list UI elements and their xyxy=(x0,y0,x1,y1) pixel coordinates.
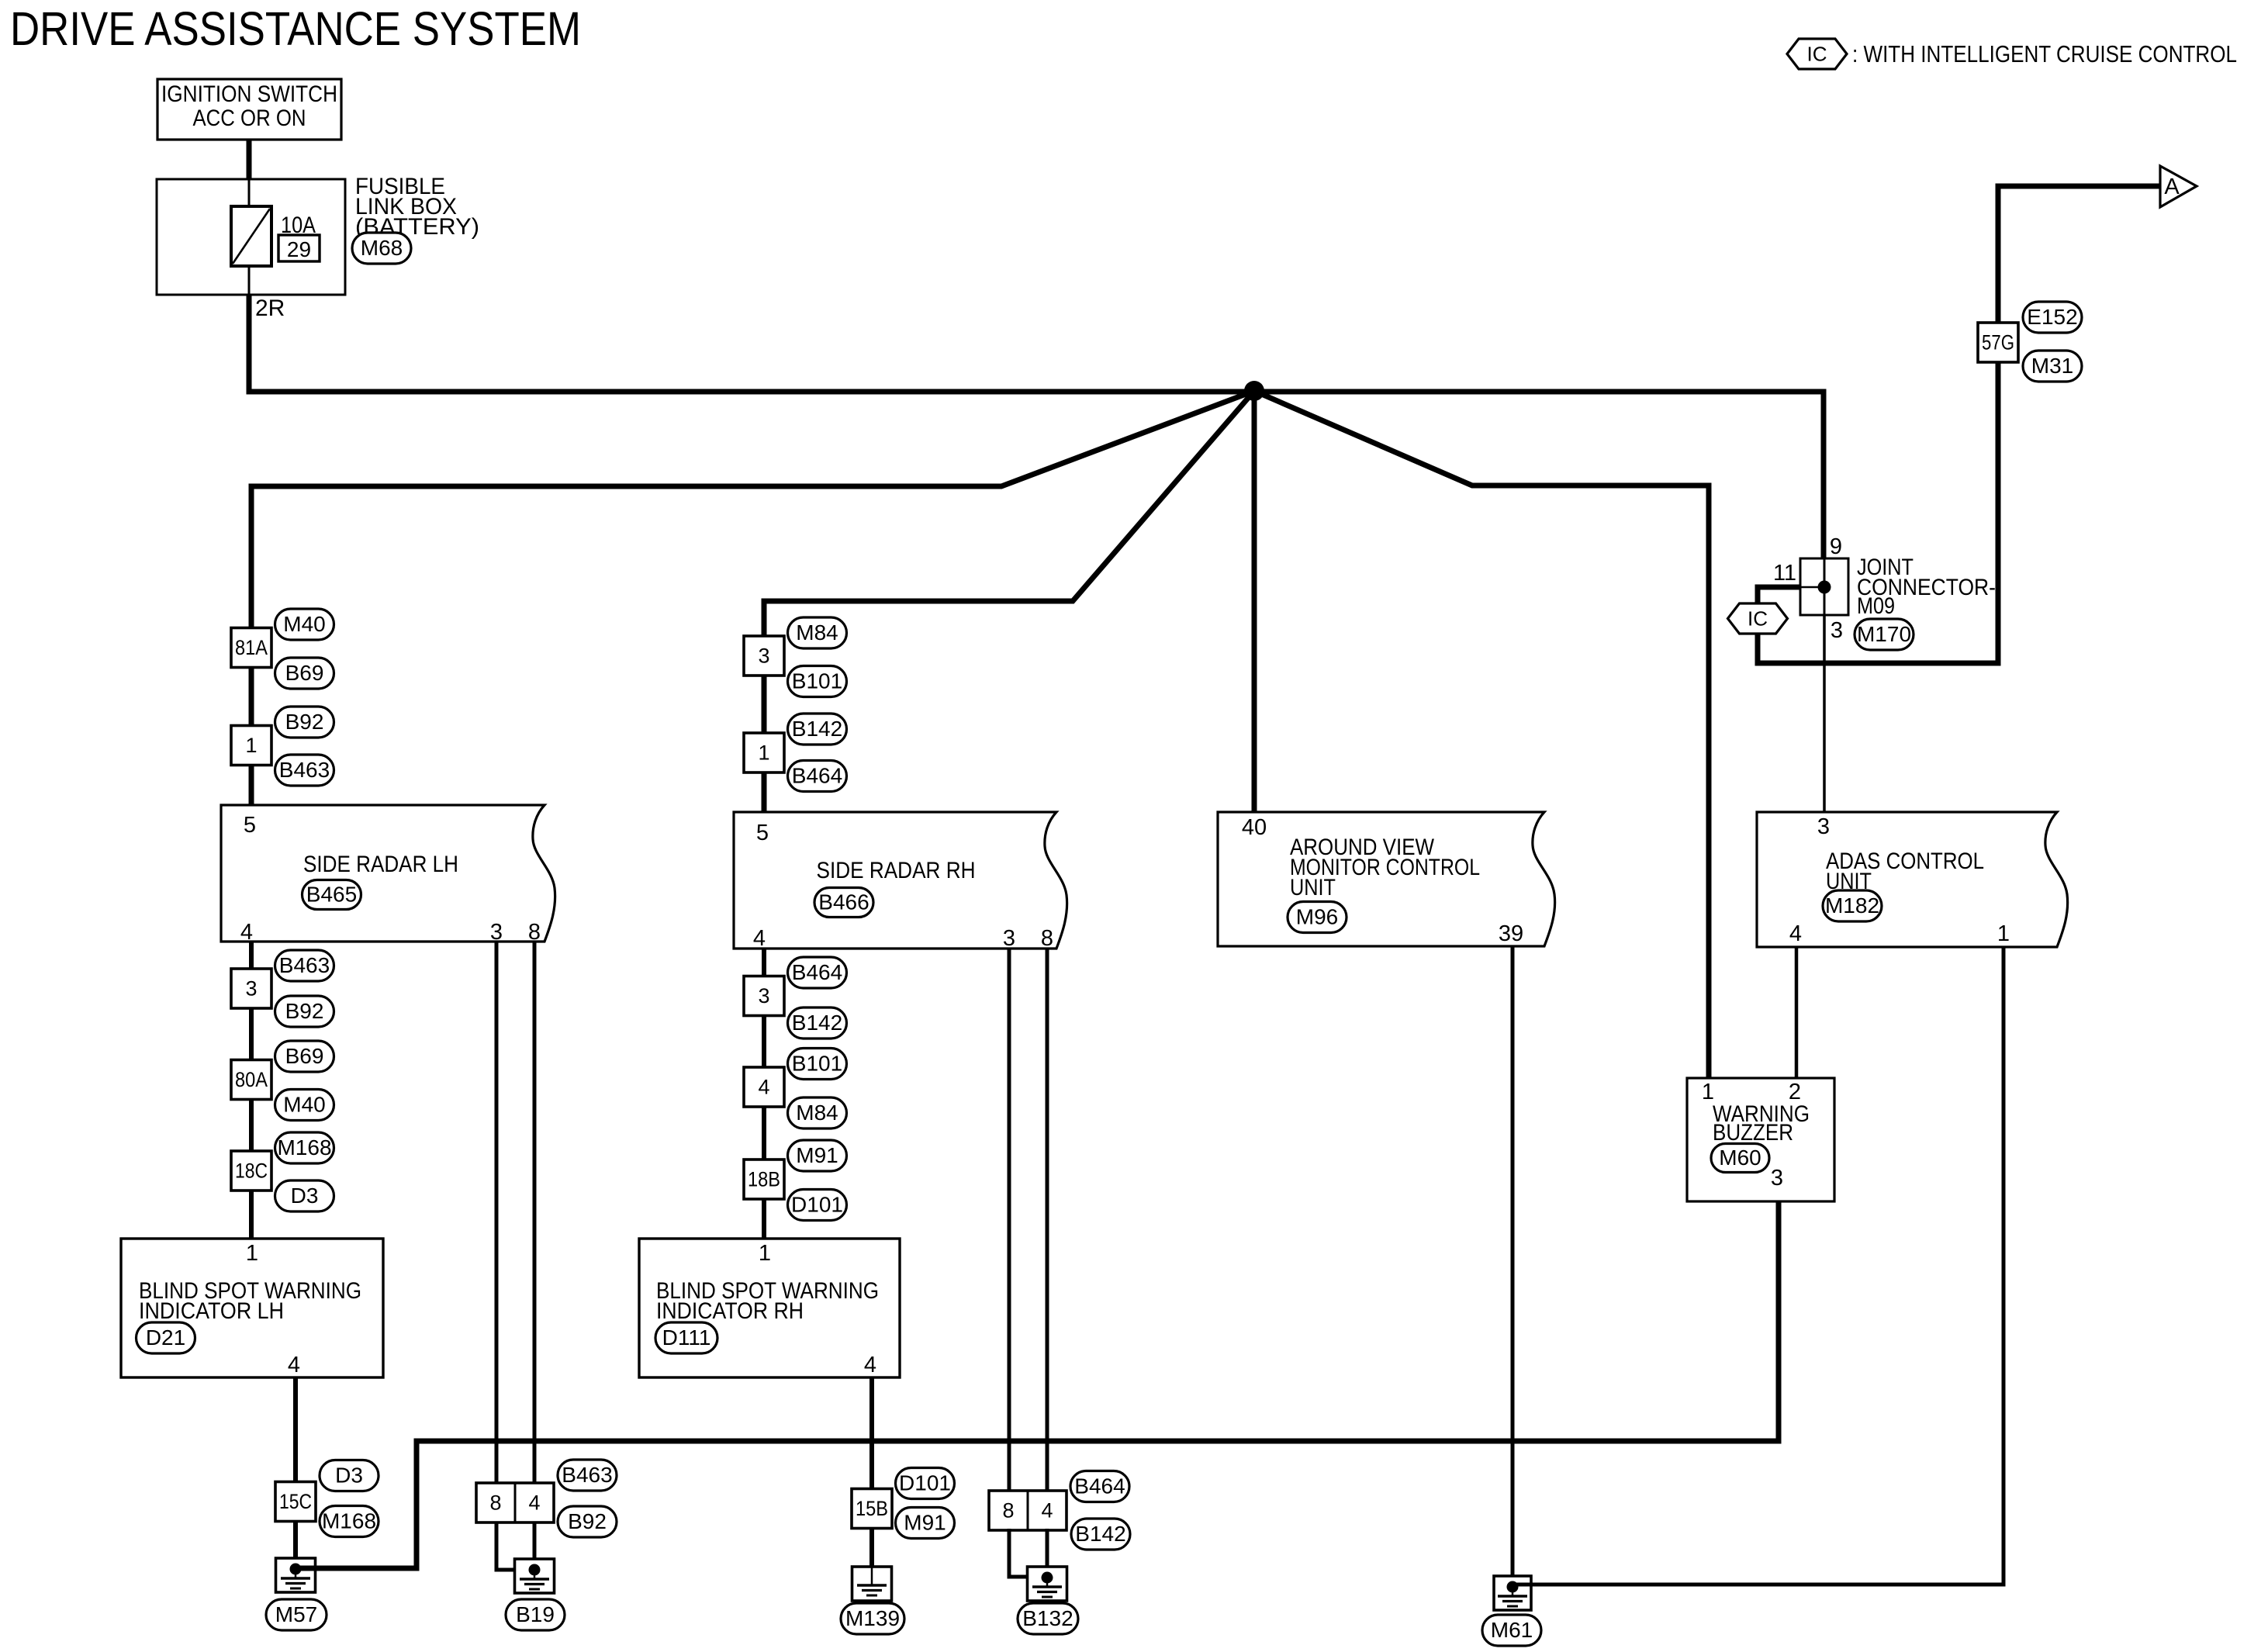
connector square 3 (middle column lower) xyxy=(744,976,784,1016)
wire branch to warning buzzer pin 1 xyxy=(1254,391,1709,1078)
connector square 3 (left column) xyxy=(231,969,271,1008)
svg-text:3: 3 xyxy=(1831,618,1843,643)
svg-text:A: A xyxy=(2164,175,2180,199)
connector oval M31 xyxy=(2023,351,2082,382)
wire 15B to ground M139 xyxy=(869,1528,874,1567)
svg-text:ACC OR ON: ACC OR ON xyxy=(193,105,306,131)
wire joint connector pin 3 to ADAS pin 3 xyxy=(1823,615,1826,812)
connector oval D101 xyxy=(788,1190,847,1221)
connector double box 8|4 (B19 side) xyxy=(476,1483,554,1522)
junction node dot xyxy=(1244,381,1264,401)
svg-text:15C: 15C xyxy=(279,1490,312,1513)
svg-text:D101: D101 xyxy=(791,1193,843,1217)
connector oval M168 xyxy=(275,1132,334,1163)
off-page arrow A xyxy=(2160,166,2197,207)
svg-text:81A: 81A xyxy=(235,636,268,659)
wire connector 8 to ground B132 xyxy=(1009,1529,1046,1577)
connector oval D21 xyxy=(137,1322,195,1353)
connector square 18C xyxy=(231,1151,271,1191)
connector oval B464 (lower) xyxy=(788,957,847,988)
connector oval B92 (lower) xyxy=(275,996,334,1027)
side radar LH box xyxy=(221,805,555,942)
connector square 80A xyxy=(231,1060,271,1100)
wire side radar RH pin 8 to connector 4 xyxy=(1046,949,1049,1492)
connector oval B464 (B132 side) xyxy=(1070,1471,1129,1502)
svg-text:11: 11 xyxy=(1773,561,1796,586)
svg-text:M91: M91 xyxy=(796,1143,838,1167)
svg-text:INDICATOR LH: INDICATOR LH xyxy=(139,1298,284,1324)
wire branch to side radar RH xyxy=(764,391,1254,812)
connector oval B142 xyxy=(788,714,847,745)
svg-text:D21: D21 xyxy=(146,1325,185,1350)
connector square 18B xyxy=(744,1160,784,1199)
connector oval M182 xyxy=(1823,890,1882,921)
wire BSW LH pin 4 to 15C xyxy=(293,1377,298,1483)
svg-text:5: 5 xyxy=(756,821,769,845)
connector oval M168 (bottom) xyxy=(320,1506,379,1537)
connector oval D101 (bottom) xyxy=(896,1468,955,1499)
svg-text:M170: M170 xyxy=(1857,622,1911,646)
wire side radar RH pin 3 to connector 8 xyxy=(1008,949,1011,1492)
svg-text:IGNITION SWITCH: IGNITION SWITCH xyxy=(161,81,337,107)
svg-text:B466: B466 xyxy=(818,890,869,914)
svg-text:B464: B464 xyxy=(792,960,842,984)
connector oval M96 xyxy=(1288,902,1347,933)
connector square 15B xyxy=(852,1489,892,1529)
svg-text:B465: B465 xyxy=(306,883,357,907)
connector oval M40 (lower) xyxy=(275,1090,334,1121)
svg-text:BUZZER: BUZZER xyxy=(1713,1120,1793,1146)
connector oval M91 (bottom) xyxy=(896,1508,955,1539)
connector oval B463 xyxy=(275,755,334,786)
connector oval M40 xyxy=(275,609,334,640)
svg-text:IC: IC xyxy=(1807,43,1827,66)
ground M139 xyxy=(852,1567,892,1601)
connector oval B69 xyxy=(275,658,334,689)
connector oval B92 (B19 side) xyxy=(558,1506,617,1537)
svg-text:4: 4 xyxy=(288,1353,300,1377)
side radar RH box xyxy=(734,812,1067,949)
svg-text:3: 3 xyxy=(245,977,257,1001)
ground B19 xyxy=(515,1559,555,1593)
connector oval B463 (B19 side) xyxy=(558,1460,617,1491)
wire BSW RH pin 4 to 15B xyxy=(869,1377,874,1489)
connector oval M84 xyxy=(788,617,847,648)
connector oval M61 xyxy=(1482,1615,1541,1646)
connector double box 8|4 (B132 side) xyxy=(989,1491,1067,1530)
connector oval D3 xyxy=(275,1180,334,1211)
svg-text:DRIVE ASSISTANCE SYSTEM: DRIVE ASSISTANCE SYSTEM xyxy=(10,2,581,55)
fusible link box M68 outline xyxy=(157,179,345,295)
svg-text:3: 3 xyxy=(1771,1166,1783,1191)
svg-text:M182: M182 xyxy=(1825,893,1879,918)
svg-text:3: 3 xyxy=(758,645,769,668)
svg-text:D3: D3 xyxy=(335,1464,363,1488)
svg-text:4: 4 xyxy=(240,920,253,945)
svg-text:4: 4 xyxy=(528,1491,540,1515)
svg-text:4: 4 xyxy=(758,1076,769,1099)
svg-text:18C: 18C xyxy=(235,1160,268,1183)
svg-text:B101: B101 xyxy=(792,1052,842,1076)
wire inside fusible link box (bottom) xyxy=(248,266,251,295)
svg-text:39: 39 xyxy=(1499,921,1523,946)
svg-text:B142: B142 xyxy=(1075,1522,1125,1546)
svg-text:B142: B142 xyxy=(792,1011,842,1035)
wire 15C to ground M57 xyxy=(293,1520,298,1569)
connector square 1 (middle column) xyxy=(744,733,784,772)
fuse 10A symbol xyxy=(231,206,271,266)
svg-text:8: 8 xyxy=(1002,1499,1014,1522)
IC hexagon on wire xyxy=(1728,603,1788,634)
ADAS control unit box xyxy=(1757,812,2068,947)
wire side radar LH pin 3 to connector 8 xyxy=(495,942,499,1483)
svg-text:3: 3 xyxy=(1817,814,1830,839)
wire AVM pin 39 to ground M61 xyxy=(1511,946,1515,1587)
wire connector 4 to ground B19 xyxy=(533,1522,537,1570)
svg-text:B132: B132 xyxy=(1022,1606,1073,1630)
joint connector M09 box xyxy=(1800,558,1848,615)
ground M57 xyxy=(276,1558,316,1592)
connector oval B69 (lower) xyxy=(275,1041,334,1072)
connector oval M170 xyxy=(1855,619,1914,650)
connector oval M139 xyxy=(841,1603,904,1634)
wire side radar LH pin 4 to blind spot warning indicator LH xyxy=(249,942,254,1239)
svg-text:M84: M84 xyxy=(796,620,838,645)
svg-text:B92: B92 xyxy=(285,999,324,1023)
svg-text:4: 4 xyxy=(1041,1499,1053,1522)
connector square 3 (middle column) xyxy=(744,636,784,676)
wire side radar RH pin 4 to blind spot warning indicator RH xyxy=(762,949,766,1239)
around view monitor control unit box xyxy=(1218,812,1555,946)
connector oval B101 xyxy=(788,666,847,697)
joint connector node dot xyxy=(1818,581,1831,594)
svg-text:4: 4 xyxy=(864,1353,876,1377)
svg-text:B463: B463 xyxy=(279,953,330,977)
svg-text:E152: E152 xyxy=(2027,305,2077,329)
connector square 81A xyxy=(231,628,271,668)
svg-text:D111: D111 xyxy=(662,1325,711,1350)
svg-text:INDICATOR RH: INDICATOR RH xyxy=(656,1298,804,1324)
svg-text:M31: M31 xyxy=(2031,354,2073,378)
svg-text:: WITH INTELLIGENT CRUISE CONT: : WITH INTELLIGENT CRUISE CONTROL xyxy=(1852,41,2237,67)
svg-text:8: 8 xyxy=(489,1491,501,1515)
connector oval B19 xyxy=(506,1599,565,1630)
connector oval M57 xyxy=(266,1599,327,1630)
svg-text:15B: 15B xyxy=(856,1497,888,1520)
svg-text:M139: M139 xyxy=(845,1606,900,1630)
connector oval M60 xyxy=(1711,1144,1769,1173)
wire joint connector pin 11 IC loop to A arrow xyxy=(1758,186,2160,663)
connector oval D3 (bottom) xyxy=(320,1460,379,1491)
svg-text:M60: M60 xyxy=(1719,1146,1761,1170)
warning buzzer box xyxy=(1687,1078,1834,1201)
svg-text:D101: D101 xyxy=(899,1471,951,1495)
svg-text:M57: M57 xyxy=(275,1602,317,1626)
svg-text:1: 1 xyxy=(1997,921,2010,946)
svg-text:M168: M168 xyxy=(277,1135,331,1160)
svg-text:B142: B142 xyxy=(792,717,842,741)
wire ignition switch to fusible link box xyxy=(247,140,252,179)
connector square 15C xyxy=(275,1482,316,1522)
connector oval M91 xyxy=(788,1140,847,1171)
connector oval B132 xyxy=(1018,1603,1078,1634)
svg-text:40: 40 xyxy=(1242,815,1267,840)
connector oval B101 (lower) xyxy=(788,1049,847,1080)
connector square 1 (left column) xyxy=(231,726,271,766)
ground M61 xyxy=(1494,1576,1531,1610)
connector oval B463 (lower) xyxy=(275,950,334,981)
blind spot warning indicator LH box xyxy=(121,1239,383,1377)
wire connector 4 to ground B132 xyxy=(1046,1529,1049,1577)
wire connector 8 to ground B19 xyxy=(496,1522,534,1570)
svg-text:M91: M91 xyxy=(904,1511,946,1535)
wire junction to around view monitor pin 40 xyxy=(1252,391,1257,812)
svg-text:M68: M68 xyxy=(361,236,403,260)
connector square 4 (middle column) xyxy=(744,1067,784,1107)
wire branch to side radar LH xyxy=(251,391,1254,805)
svg-text:SIDE RADAR RH: SIDE RADAR RH xyxy=(817,858,976,883)
svg-text:M09: M09 xyxy=(1857,593,1895,619)
svg-text:B101: B101 xyxy=(792,669,842,693)
svg-text:B464: B464 xyxy=(792,764,842,788)
svg-text:B69: B69 xyxy=(285,661,324,685)
svg-text:M61: M61 xyxy=(1491,1618,1533,1642)
svg-text:B464: B464 xyxy=(1074,1474,1125,1498)
svg-text:2R: 2R xyxy=(255,295,285,321)
svg-text:D3: D3 xyxy=(291,1184,319,1208)
svg-text:8: 8 xyxy=(1041,926,1053,951)
svg-text:M40: M40 xyxy=(283,612,325,636)
svg-text:M40: M40 xyxy=(283,1093,325,1117)
svg-text:1: 1 xyxy=(245,734,257,757)
svg-text:M84: M84 xyxy=(796,1101,838,1125)
fuse number box 29 xyxy=(278,235,320,261)
svg-text:B92: B92 xyxy=(285,710,324,734)
svg-text:B69: B69 xyxy=(285,1044,324,1068)
connector square 57G xyxy=(1978,323,2018,362)
svg-text:1: 1 xyxy=(758,741,769,765)
ground B132 xyxy=(1028,1567,1067,1601)
wire inside fusible link box (top) xyxy=(248,179,251,206)
connector oval B92 xyxy=(275,707,334,738)
wire warning buzzer pin 3 to ground M57 xyxy=(296,1201,1779,1568)
svg-text:B463: B463 xyxy=(279,758,330,782)
connector oval M84 (lower) xyxy=(788,1097,847,1128)
svg-text:3: 3 xyxy=(758,984,769,1007)
svg-text:29: 29 xyxy=(287,237,311,261)
svg-text:18B: 18B xyxy=(748,1168,780,1191)
svg-text:80A: 80A xyxy=(235,1068,268,1091)
svg-text:3: 3 xyxy=(1003,926,1015,951)
svg-text:1: 1 xyxy=(759,1241,771,1266)
svg-text:M168: M168 xyxy=(322,1509,376,1533)
wire 2R and main power bus to joint connector pin 9 xyxy=(249,295,1824,558)
connector oval E152 xyxy=(2023,302,2082,333)
connector oval B466 xyxy=(814,888,873,918)
legend IC hexagon symbol xyxy=(1787,39,1847,69)
svg-text:8: 8 xyxy=(528,920,541,945)
connector oval B464 xyxy=(788,761,847,792)
svg-text:3: 3 xyxy=(490,920,503,945)
wire ADAS pin 4 to warning buzzer pin 2 xyxy=(1795,947,1799,1078)
svg-text:1: 1 xyxy=(246,1241,258,1266)
svg-text:M96: M96 xyxy=(1296,905,1338,929)
wire ADAS pin 1 to ground M61 xyxy=(1513,947,2003,1585)
connector oval M68 xyxy=(352,233,411,264)
svg-text:B92: B92 xyxy=(568,1509,607,1533)
svg-text:5: 5 xyxy=(244,813,256,838)
connector oval B142 (B132 side) xyxy=(1071,1519,1130,1550)
svg-text:IC: IC xyxy=(1748,607,1768,631)
connector oval D111 xyxy=(655,1322,717,1353)
blind spot warning indicator RH box xyxy=(639,1239,900,1377)
ignition switch box xyxy=(157,79,341,140)
svg-text:9: 9 xyxy=(1830,534,1842,559)
svg-text:57G: 57G xyxy=(1982,331,2014,354)
svg-text:B463: B463 xyxy=(562,1463,612,1487)
svg-text:UNIT: UNIT xyxy=(1290,875,1336,900)
svg-text:4: 4 xyxy=(753,926,766,951)
wire side radar LH pin 8 to connector 4 xyxy=(533,942,537,1483)
svg-text:SIDE RADAR LH: SIDE RADAR LH xyxy=(303,852,458,877)
connector oval B465 xyxy=(303,880,361,910)
svg-text:B19: B19 xyxy=(516,1602,555,1626)
connector oval B142 (lower) xyxy=(788,1007,847,1039)
svg-text:4: 4 xyxy=(1789,921,1802,946)
